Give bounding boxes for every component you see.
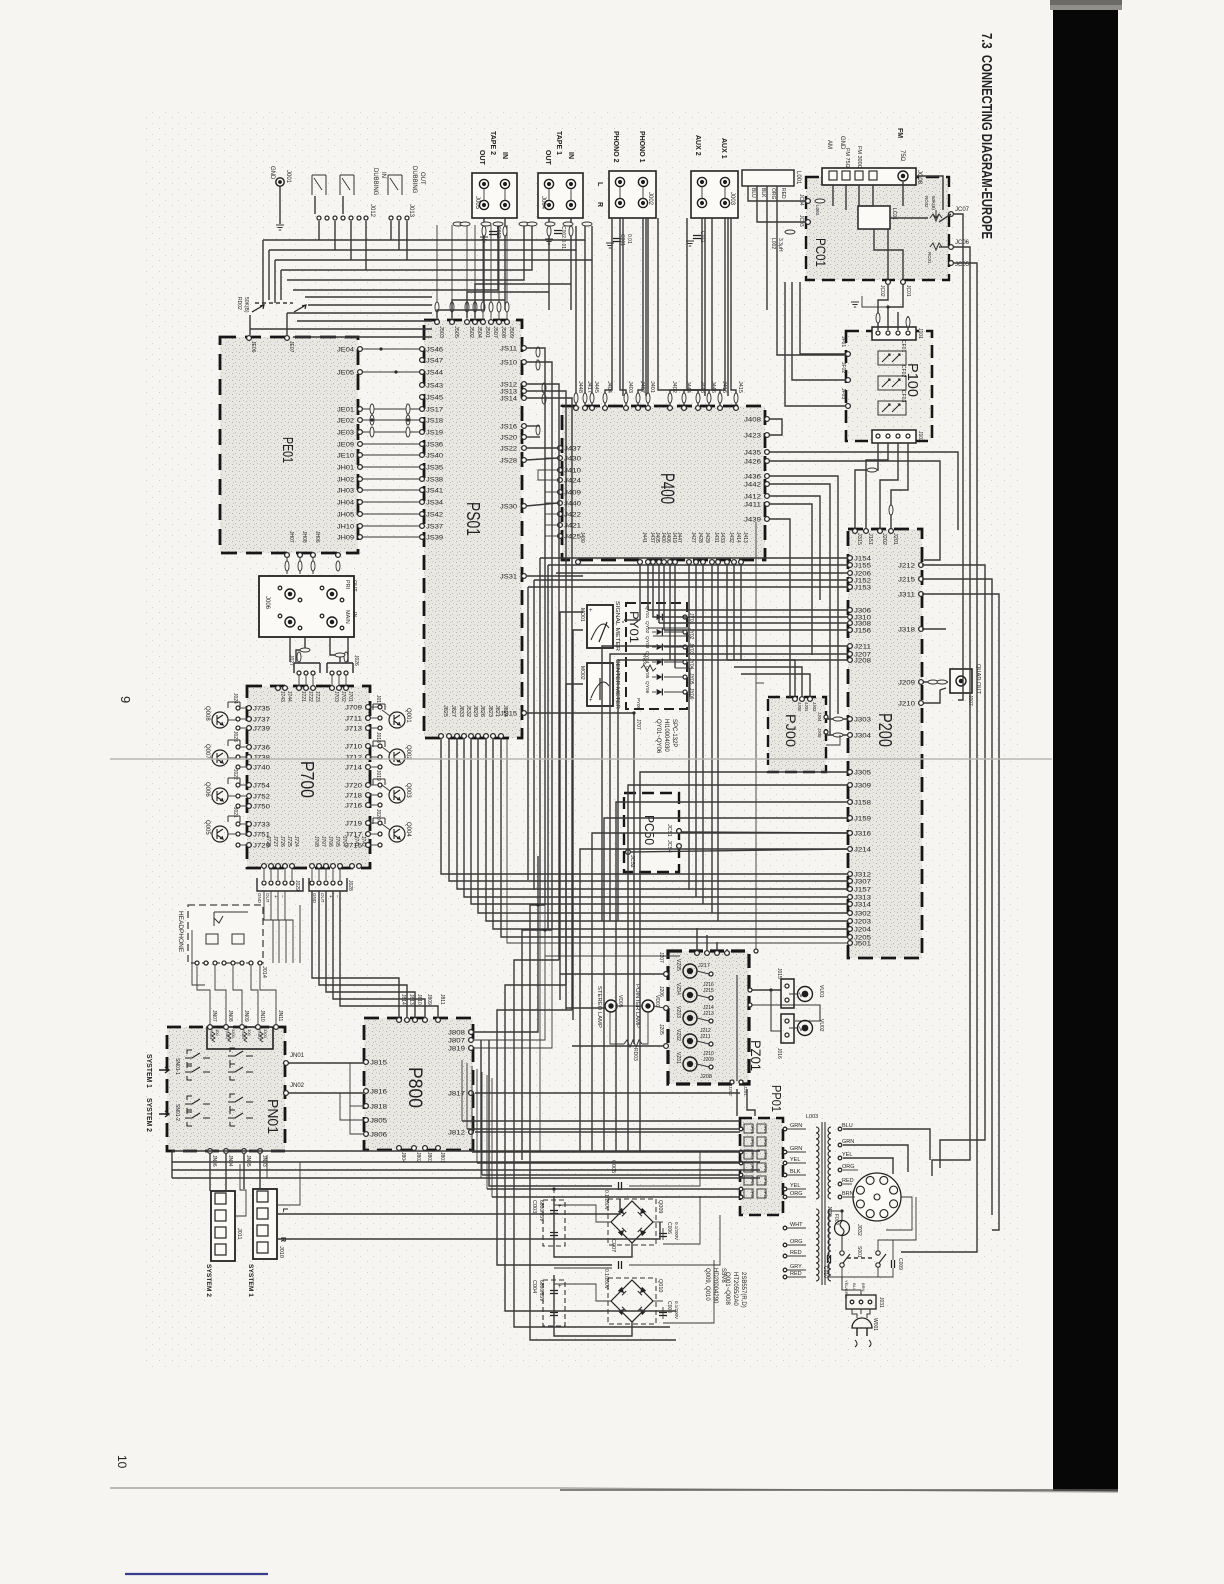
svg-text:PS01: PS01 (463, 502, 483, 536)
svg-text:PHONO 2: PHONO 2 (612, 131, 619, 163)
svg-text:JN01: JN01 (290, 1053, 305, 1059)
svg-text:ORG: ORG (770, 188, 776, 200)
svg-text:JH07: JH07 (288, 531, 294, 543)
svg-text:YEL: YEL (790, 1157, 800, 1163)
svg-text:GND: GND (257, 893, 262, 904)
svg-text:J206: J206 (854, 572, 872, 578)
svg-text:2SB557(R,D): 2SB557(R,D) (740, 1272, 746, 1308)
coil box L001 (742, 170, 801, 200)
svg-text:JP08: JP08 (763, 1138, 767, 1146)
svg-text:JP04: JP04 (750, 1164, 754, 1172)
wires P400 bottom bundle down to PJ00 and PZ01 (689, 564, 810, 921)
svg-text:J448: J448 (577, 381, 583, 393)
connector GND J001 (269, 166, 291, 230)
wires bridge Q009 connections (552, 1151, 700, 1257)
svg-text:JS22: JS22 (500, 447, 518, 453)
svg-text:RED: RED (780, 188, 786, 199)
svg-text:JE06: JE06 (250, 341, 256, 353)
svg-text:DUBBING: DUBBING (411, 166, 417, 194)
svg-text:FM 300Ω: FM 300Ω (856, 146, 862, 169)
svg-text:JC03: JC03 (798, 215, 804, 227)
svg-text:SN01-1: SN01-1 (174, 1058, 180, 1075)
svg-text:J304: J304 (854, 734, 872, 740)
svg-text:J203: J203 (854, 920, 872, 926)
wires meters to bundle (560, 612, 624, 1020)
svg-text:J005: J005 (474, 196, 480, 210)
svg-text:F001: F001 (833, 1214, 839, 1226)
svg-text:Q007: Q007 (204, 744, 210, 759)
svg-text:J501: J501 (484, 326, 490, 338)
svg-text:SYSTEM 1: SYSTEM 1 (145, 1054, 152, 1088)
P700 left pins J735-J729 (236, 706, 271, 850)
svg-text:J704: J704 (341, 836, 347, 847)
wires PN01 to P800 (289, 1063, 364, 1134)
svg-text:J217: J217 (698, 963, 710, 969)
connector J007 QUAD OUT (950, 664, 981, 706)
svg-text:IN: IN (501, 152, 508, 159)
block PN01 (167, 1027, 285, 1151)
svg-text:MO02: MO02 (579, 666, 585, 680)
svg-text:JN08: JN08 (227, 1010, 233, 1022)
svg-text:JH04: JH04 (337, 501, 355, 507)
capacitor C002 0.01 (545, 226, 566, 249)
wires JF pins left and up (785, 282, 846, 406)
svg-text:7.3 CONNECTING DIAGRAM-EUROPE: 7.3 CONNECTING DIAGRAM-EUROPE (978, 33, 994, 239)
svg-text:J314: J314 (854, 903, 872, 909)
svg-text:QUAD OUT: QUAD OUT (975, 664, 981, 695)
svg-text:OUT: OUT (351, 580, 357, 592)
svg-text:3300: 3300 (231, 1029, 236, 1039)
svg-text:CF02: CF02 (900, 365, 906, 377)
part number text Q009 Q010 (704, 1268, 726, 1304)
wires bundle into PP01 (462, 1060, 740, 1197)
svg-text:J006: J006 (264, 596, 270, 610)
svg-text:DUBBING: DUBBING (372, 168, 378, 196)
svg-text:J439: J439 (744, 518, 762, 524)
svg-text:J212: J212 (898, 564, 916, 570)
svg-text:RD03: RD03 (632, 1048, 638, 1061)
svg-text:VZ04: VZ04 (675, 983, 681, 995)
svg-text:P700: P700 (297, 761, 317, 798)
P200 left pins (848, 556, 872, 948)
svg-text:J833: J833 (458, 705, 464, 717)
svg-text:AUX 2: AUX 2 (694, 135, 701, 156)
svg-text:JS10: JS10 (500, 361, 518, 367)
svg-text:+: + (272, 895, 278, 898)
svg-text:100: 100 (247, 1029, 252, 1036)
block P200 (848, 529, 922, 958)
svg-text:J309: J309 (854, 784, 872, 790)
svg-text:3300: 3300 (263, 1029, 268, 1039)
svg-text:J505: J505 (453, 326, 459, 338)
svg-text:J151: J151 (867, 533, 873, 545)
capacitor C007 0.1/200V (603, 1239, 622, 1290)
coil L002 3.3uH label (770, 230, 795, 252)
svg-text:JJ03: JJ03 (812, 702, 817, 712)
svg-text:J805: J805 (370, 1119, 388, 1125)
svg-text:+: + (327, 895, 333, 898)
PZ01 lamps VZ01-VZ05 (675, 959, 743, 1084)
svg-text:RED: RED (842, 1178, 854, 1184)
svg-text:J211: J211 (854, 645, 872, 651)
svg-text:JS36: JS36 (426, 443, 444, 449)
svg-text:J402: J402 (671, 381, 677, 393)
svg-text:HT2055/2A0: HT2055/2A0 (732, 1272, 738, 1306)
svg-text:J742: J742 (360, 836, 366, 847)
svg-text:J503: J503 (438, 326, 444, 338)
svg-text:QY01~QY06: QY01~QY06 (655, 719, 661, 754)
P400 bottom pins J441-J413 (576, 532, 748, 564)
wires transformer secondary to selector (843, 1129, 930, 1230)
trimmer RD02 50K(B) (236, 297, 306, 313)
svg-text:JS30: JS30 (500, 505, 518, 511)
svg-text:YEL: YEL (842, 1152, 852, 1158)
svg-text:J154: J154 (854, 557, 872, 563)
PC01 right pins JC07 JC06 JC05 (949, 207, 970, 268)
svg-text:WHT: WHT (790, 1222, 803, 1228)
svg-text:J427: J427 (690, 532, 696, 543)
svg-text:J429: J429 (704, 532, 710, 543)
wires PE01 to PS01 rows JE/JH to JS (337, 347, 444, 542)
svg-text:JS40: JS40 (426, 454, 444, 460)
svg-text:R: R (596, 202, 603, 207)
resistor RC01 (927, 243, 942, 264)
capacitor C001 0.01 (606, 234, 632, 248)
svg-text:J313: J313 (854, 896, 872, 902)
P800 left pins J815-J806 (364, 1060, 388, 1139)
svg-text:JS43: JS43 (426, 384, 444, 390)
svg-text:J743: J743 (279, 691, 285, 702)
svg-text:J435: J435 (744, 451, 762, 457)
svg-text:JN07: JN07 (211, 1010, 217, 1022)
svg-text:MAIN: MAIN (344, 610, 350, 624)
svg-text:J444: J444 (685, 381, 691, 393)
PN01 resistor strip RN01-RN04 (207, 1027, 273, 1049)
lamp VD05 STEREO LAMP (596, 986, 623, 1028)
beads on JE rows (370, 347, 410, 437)
svg-text:J016: J016 (776, 1048, 782, 1059)
svg-text:IN: IN (567, 152, 574, 159)
svg-text:J431: J431 (713, 532, 719, 543)
svg-text:ORG: ORG (790, 1191, 803, 1197)
svg-text:SPC-132P: SPC-132P (671, 719, 677, 747)
svg-text:J809: J809 (426, 994, 432, 1005)
svg-text:JS35: JS35 (426, 466, 444, 472)
svg-text:J445: J445 (593, 381, 599, 393)
svg-text:JF02: JF02 (840, 362, 846, 373)
svg-text:P200: P200 (875, 713, 895, 747)
svg-text:S5V8: S5V8 (720, 1268, 726, 1283)
svg-text:QY05: QY05 (644, 666, 650, 679)
svg-text:RC02: RC02 (924, 196, 929, 208)
svg-text:JE04: JE04 (337, 348, 355, 354)
svg-text:J725: J725 (286, 836, 292, 847)
wires selector to switch to plug (829, 1197, 916, 1295)
svg-text:JS14: JS14 (500, 397, 518, 403)
svg-text:JS11: JS11 (500, 347, 518, 353)
svg-text:VZ01: VZ01 (675, 1052, 681, 1064)
svg-text:J811: J811 (439, 994, 445, 1005)
svg-text:TAPE 2: TAPE 2 (489, 131, 496, 155)
svg-text:J718: J718 (345, 794, 363, 800)
svg-text:J413: J413 (742, 532, 748, 543)
P100 left pins JF01 JF02 JF03 (840, 336, 850, 408)
svg-text:JS39: JS39 (426, 536, 444, 542)
svg-text:JH09: JH09 (337, 536, 355, 542)
wires J303 J304 beads (826, 717, 848, 745)
svg-text:PRI: PRI (344, 580, 350, 590)
svg-text:J702: J702 (340, 691, 346, 702)
svg-text:J004: J004 (540, 196, 546, 210)
svg-text:−: − (334, 895, 340, 898)
svg-text:J202: J202 (728, 1086, 733, 1096)
svg-text:JS47: JS47 (426, 359, 444, 365)
svg-text:HD20004290: HD20004290 (712, 1268, 718, 1304)
svg-text:J312: J312 (854, 873, 872, 879)
svg-text:VU02: VU02 (818, 1019, 824, 1032)
svg-text:RN04: RN04 (209, 1029, 214, 1040)
svg-text:JS42: JS42 (426, 513, 444, 519)
svg-text:JS41: JS41 (426, 489, 444, 495)
wires PE01 top pins to trimmers (250, 313, 287, 335)
svg-text:GRN: GRN (790, 1123, 802, 1129)
svg-text:J029: J029 (294, 880, 300, 891)
block PY01 (626, 603, 694, 710)
svg-text:OUT: OUT (419, 172, 425, 185)
svg-text:J733: J733 (253, 823, 271, 829)
svg-text:J703: J703 (333, 691, 339, 702)
svg-text:JH01: JH01 (337, 466, 355, 472)
svg-text:L: L (596, 182, 603, 187)
svg-text:C004: C004 (531, 1280, 537, 1293)
svg-text:JH06: JH06 (314, 531, 320, 543)
svg-text:QY06: QY06 (644, 681, 650, 694)
P400 left pins J437-J425 (558, 446, 582, 541)
svg-text:V: V (799, 1027, 803, 1033)
svg-text:J818: J818 (370, 1105, 388, 1111)
svg-text:J303: J303 (854, 718, 872, 724)
connector J005 TAPE 2 (472, 131, 517, 218)
svg-text:10: 10 (115, 1455, 129, 1469)
svg-text:RD02: RD02 (236, 297, 242, 310)
svg-text:J701: J701 (347, 691, 353, 702)
svg-text:C003: C003 (531, 1200, 537, 1213)
svg-text:PY01: PY01 (627, 611, 641, 643)
capacitor C011 (686, 231, 705, 246)
svg-text:JC02: JC02 (879, 285, 885, 297)
svg-text:0.01: 0.01 (626, 234, 632, 244)
block PZ01 (668, 951, 764, 1084)
svg-text:J315: J315 (856, 533, 862, 545)
svg-text:L002: L002 (770, 238, 776, 249)
svg-text:J403: J403 (627, 381, 633, 393)
svg-text:J031: J031 (878, 1297, 884, 1308)
page scan seam (110, 758, 1052, 760)
meter MO02 CENTER METER (579, 659, 620, 709)
svg-text:JS46: JS46 (426, 348, 444, 354)
svg-text:PJ00: PJ00 (783, 714, 799, 747)
svg-text:J509: J509 (508, 326, 514, 338)
svg-text:J826: J826 (479, 705, 485, 717)
svg-text:J741: J741 (353, 836, 359, 847)
svg-text:P400: P400 (656, 473, 677, 504)
wires J029 J028 strips down (264, 891, 438, 1018)
wires headphone to PN01 (192, 930, 276, 1024)
svg-text:JP06: JP06 (750, 1190, 754, 1198)
svg-text:Q005: Q005 (204, 820, 210, 835)
svg-text:JN04: JN04 (227, 1155, 233, 1167)
svg-text:+: + (558, 1284, 562, 1290)
svg-text:MO01: MO01 (579, 608, 585, 622)
svg-text:J754: J754 (253, 784, 271, 790)
wires lamps and PZ01 left (545, 956, 680, 1046)
bottom rule line (110, 1488, 1118, 1492)
svg-text:J433: J433 (719, 532, 725, 543)
svg-text:J207: J207 (658, 952, 664, 963)
svg-text:PE01: PE01 (279, 437, 296, 463)
svg-text:J819: J819 (448, 1047, 466, 1053)
svg-text:OUT: OUT (544, 150, 551, 166)
PS01 right pins JS11-JS15 (500, 346, 526, 718)
svg-text:9: 9 (118, 696, 133, 703)
svg-text:PP01: PP01 (769, 1085, 784, 1112)
PP01 connector pins JP01-JP12 (739, 1124, 767, 1199)
PE01 top pins JE06 JE07 (247, 336, 294, 353)
svg-text:JF01: JF01 (840, 336, 846, 347)
svg-text:PC01: PC01 (813, 238, 829, 267)
capacitor C009 (892, 1258, 904, 1270)
capacitor block C003 6800/63V (531, 1200, 565, 1246)
svg-text:Q006: Q006 (204, 782, 210, 797)
wires bridge Q010 connections (554, 1215, 720, 1336)
svg-text:J010: J010 (278, 1246, 284, 1258)
svg-text:J003: J003 (729, 192, 735, 206)
svg-text:J713: J713 (345, 727, 363, 733)
svg-text:PZ01: PZ01 (748, 1040, 764, 1071)
svg-text:J827: J827 (450, 705, 456, 717)
potentiometer RC02 50K(B) (924, 196, 942, 221)
svg-text:J401: J401 (649, 381, 655, 393)
svg-text:AM: AM (826, 140, 832, 149)
svg-text:RED: RED (790, 1250, 802, 1256)
transistors Q001-Q004 (373, 695, 411, 842)
PJ00 top pins JJ01-JJ03 (793, 697, 828, 738)
svg-text:FM 75Ω: FM 75Ω (844, 148, 850, 168)
svg-text:J532: J532 (465, 705, 471, 717)
voltage selector J032 (853, 1173, 901, 1236)
svg-text:Q002: Q002 (405, 745, 411, 760)
wires central staircase PS01 bottom to P200 lower left (441, 739, 848, 943)
svg-text:JH10: JH10 (337, 525, 355, 531)
wires antenna strip to PC01 interior (833, 176, 951, 279)
connector box J006 PRI OUT MAIN IN (259, 576, 357, 637)
svg-text:J406: J406 (665, 532, 671, 543)
transistors Q005-Q008 and J021-J024 (204, 693, 240, 842)
svg-text:BRN: BRN (861, 1283, 866, 1292)
svg-text:JF03: JF03 (840, 388, 846, 399)
svg-text:JE09: JE09 (337, 443, 355, 449)
antenna terminal strip JC08 (822, 128, 922, 185)
svg-text:PY05: PY05 (636, 698, 641, 710)
svg-text:JN02: JN02 (290, 1083, 305, 1089)
wires P800 right pins up channel (473, 856, 740, 1132)
svg-text:J744: J744 (286, 691, 292, 702)
meter MO01 SIGNAL METER (579, 601, 620, 651)
svg-text:J308: J308 (854, 622, 872, 628)
svg-text:JP09: JP09 (763, 1151, 767, 1159)
svg-text:AUX 1: AUX 1 (720, 138, 727, 159)
svg-text:GND: GND (312, 893, 317, 904)
svg-text:J504: J504 (476, 326, 482, 338)
svg-text:VZ05: VZ05 (675, 959, 681, 971)
svg-text:C002 0.01: C002 0.01 (560, 226, 566, 249)
transformer L003 primary windings (806, 1114, 825, 1285)
switch S001 (840, 1246, 886, 1267)
svg-text:SIGNAL METER: SIGNAL METER (614, 601, 620, 651)
svg-text:QY02: QY02 (644, 621, 650, 634)
wire bus PE01 PS01 top rows (250, 297, 432, 337)
capacitor C010 (822, 1255, 831, 1278)
capacitor C008 0.1/200V (659, 1301, 679, 1319)
svg-text:JN03: JN03 (261, 1155, 267, 1167)
svg-text:J737: J737 (253, 718, 271, 724)
wires TAPE columns down (437, 218, 573, 318)
svg-text:QY03: QY03 (644, 636, 650, 649)
svg-text:100: 100 (215, 1029, 220, 1036)
svg-text:J817: J817 (448, 1092, 466, 1098)
scanner black bar (1053, 0, 1118, 1492)
svg-text:JS20: JS20 (500, 436, 518, 442)
svg-text:J426: J426 (744, 460, 762, 466)
svg-text:J824: J824 (502, 705, 508, 717)
svg-text:J710: J710 (345, 745, 363, 751)
svg-text:J808: J808 (448, 1031, 466, 1037)
svg-text:J812: J812 (448, 1131, 466, 1137)
svg-text:BLU: BLU (842, 1123, 853, 1129)
svg-text:L001: L001 (795, 171, 801, 185)
svg-text:J408: J408 (744, 418, 762, 424)
svg-text:JN06: JN06 (211, 1155, 217, 1167)
svg-text:J012: J012 (369, 204, 375, 218)
svg-text:YEL/GRN: YEL/GRN (844, 1280, 849, 1298)
svg-text:J101: J101 (917, 328, 923, 339)
svg-text:J302: J302 (854, 912, 872, 918)
svg-text:J201: J201 (892, 533, 898, 545)
svg-text:JS44: JS44 (426, 371, 444, 377)
svg-text:J707: J707 (320, 836, 326, 847)
lamp VD03 POINTER LAMP (634, 984, 660, 1028)
svg-text:J415: J415 (737, 381, 743, 393)
svg-text:J407: J407 (639, 381, 645, 393)
svg-text:J722: J722 (307, 691, 313, 702)
svg-text:GRN: GRN (842, 1139, 854, 1145)
bead row below connectors (453, 222, 592, 226)
svg-text:YEL: YEL (790, 1183, 800, 1189)
capacitor C006 0.1/200V (659, 1222, 679, 1240)
svg-text:6800/63V: 6800/63V (538, 1200, 544, 1222)
svg-text:ORG: ORG (842, 1164, 855, 1170)
svg-text:FM: FM (896, 128, 903, 138)
svg-text:IN: IN (380, 172, 386, 178)
svg-text:JS45: JS45 (426, 396, 444, 402)
svg-text:J215: J215 (898, 578, 916, 584)
svg-text:BLK: BLK (760, 188, 766, 198)
svg-text:0.1/200V: 0.1/200V (603, 1269, 609, 1290)
resistor RD03 (624, 1040, 642, 1061)
AC plug W001 (852, 1309, 878, 1347)
svg-text:Q004: Q004 (405, 822, 411, 837)
svg-text:RN01: RN01 (257, 1029, 262, 1040)
